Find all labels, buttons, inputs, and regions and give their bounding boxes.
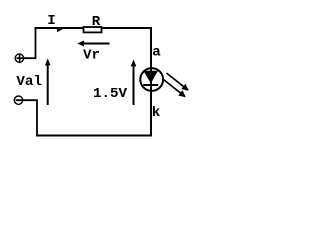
wire top rail — [35, 27, 152, 29]
svg-text:k: k — [152, 105, 161, 121]
resistor R1 — [84, 27, 102, 32]
wire from - terminal to bottom rail — [16, 100, 37, 135]
svg-text:1.5V: 1.5V — [93, 86, 128, 102]
Vr arrow — [77, 41, 109, 47]
svg-text:R: R — [92, 14, 101, 30]
Val voltage arrow — [45, 59, 51, 106]
svg-text:a: a — [152, 45, 161, 61]
wire bottom rail — [36, 135, 152, 137]
wire from + terminal to top rail — [16, 28, 35, 58]
svg-text:Vr: Vr — [83, 48, 100, 64]
battery - terminal — [14, 96, 22, 104]
svg-text:I: I — [47, 13, 56, 29]
current arrow — [57, 27, 63, 32]
svg-text:Val: Val — [16, 74, 42, 90]
LED D1 — [140, 68, 163, 91]
battery + terminal — [15, 54, 23, 63]
wire right vertical — [150, 27, 152, 137]
1.5V voltage arrow — [131, 60, 137, 106]
LED light emission arrows — [164, 73, 189, 97]
